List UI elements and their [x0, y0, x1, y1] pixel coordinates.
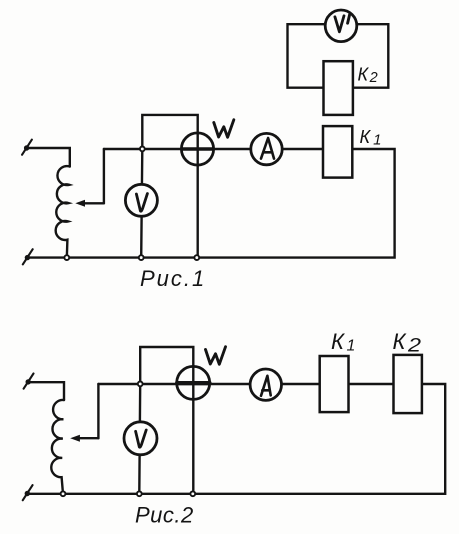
node voltmeter bottom fig1 [139, 255, 144, 260]
wire from top terminal to coil top fig2 [28, 382, 64, 400]
wattmeter voltage-coil bracket fig1 [142, 115, 197, 258]
coil K1 fig2 [320, 356, 349, 412]
voltmeter V fig2 [124, 422, 157, 455]
node coil bottom fig1 [64, 255, 69, 260]
coil K1 fig1 [323, 126, 352, 178]
voltmeter branch wire fig2 [138, 384, 141, 494]
ammeter A fig1 [251, 133, 282, 164]
label W fig2 [206, 347, 226, 365]
node voltmeter bottom fig2 [137, 491, 142, 496]
svg-text:Рис.1: Рис.1 [140, 266, 206, 291]
node wattmeter bottom fig1 [194, 255, 199, 260]
svg-text:Рис.2: Рис.2 [135, 503, 194, 528]
wattmeter W fig1 [181, 133, 213, 165]
voltmeter V fig1 [125, 184, 157, 216]
voltmeter V-prime fig1 [325, 10, 357, 42]
terminal input bottom-left fig2 [23, 485, 33, 500]
node wattmeter bottom fig2 [190, 491, 195, 496]
wiper arrow of autotransformer fig2 [70, 384, 98, 442]
voltmeter-prime loop wire fig1 [288, 24, 389, 87]
terminal input bottom-left fig1 [23, 249, 33, 264]
node at voltmeter branch on main wire fig2 [138, 382, 143, 387]
main circuit loop fig2: top wire, right side, bottom wire [27, 384, 445, 494]
node coil bottom fig2 [61, 491, 66, 496]
autotransformer winding fig1 [56, 166, 70, 255]
terminal input top-left fig2 [24, 374, 34, 389]
coil K2 fig1 [324, 61, 353, 115]
voltmeter branch wire fig1 [141, 149, 142, 258]
node at voltmeter branch on main wire fig1 [140, 147, 145, 152]
ammeter A fig2 [250, 369, 281, 400]
wire from top terminal to coil top fig1 [27, 148, 70, 167]
coil K2 fig2 [394, 355, 422, 413]
autotransformer winding fig2 [51, 400, 64, 491]
wattmeter voltage-coil bracket fig2 [140, 347, 193, 494]
wiper arrow of autotransformer fig1 [75, 149, 104, 207]
wattmeter W fig2 [177, 366, 210, 399]
label W fig1 [214, 120, 234, 138]
main circuit loop fig1: top wire, right side, bottom wire [27, 149, 394, 258]
terminal input top-left fig1 [22, 140, 32, 155]
